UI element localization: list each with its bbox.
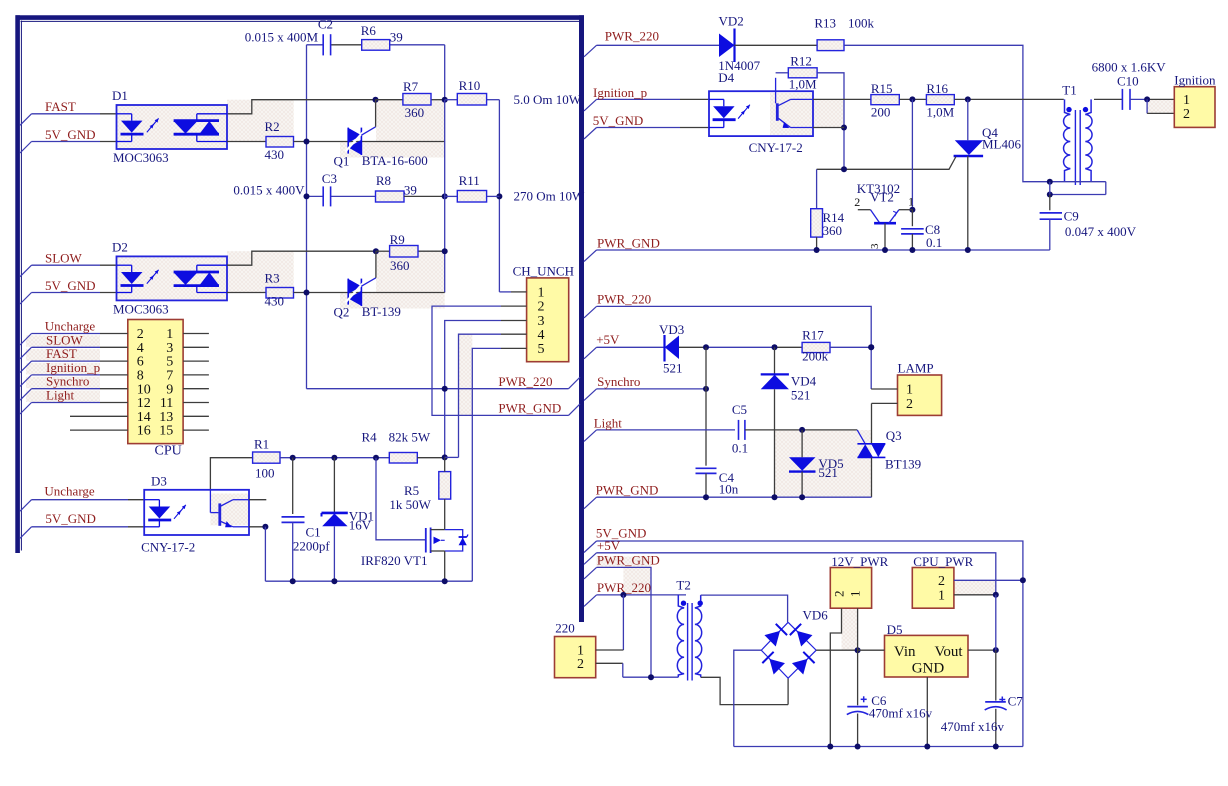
- wire R1 row: [280, 457, 389, 459]
- nodes on lamp PWR_GND rail: [703, 494, 709, 500]
- wire R10 to CH_UNCH pin1 vertical: [498, 100, 500, 292]
- svg-text:521: 521: [818, 465, 838, 480]
- node R7 left junction: [373, 97, 379, 103]
- svg-text:360: 360: [823, 223, 843, 238]
- svg-text:2: 2: [538, 300, 545, 315]
- svg-text:0.015 x 400V: 0.015 x 400V: [233, 183, 305, 198]
- wire R15/R16 junction down to VT2: [911, 99, 913, 209]
- net PWR_220 (psu): [584, 595, 597, 607]
- optocoupler D2 triac: [174, 271, 219, 274]
- diode VD3: [663, 335, 665, 362]
- connector CPU box: [128, 320, 183, 444]
- resistor R4: [389, 453, 417, 464]
- net 5V_GND (D4): [584, 128, 597, 140]
- net PWR_GND (left sheet): [569, 404, 581, 416]
- svg-text:220: 220: [555, 621, 575, 636]
- shaded region Q2 area: [376, 251, 445, 292]
- optocoupler D4 LED: [709, 98, 724, 100]
- wire bottom rail (left sheet): [265, 580, 472, 582]
- svg-text:FAST: FAST: [45, 99, 76, 114]
- net Uncharge (CPU pin 2): [20, 334, 32, 346]
- shaded region PWR_GND bottom-left band: [597, 557, 652, 568]
- node R17/PWR_220 junction: [868, 344, 874, 350]
- svg-text:SLOW: SLOW: [46, 332, 84, 347]
- svg-text:1: 1: [908, 195, 914, 209]
- wire middle vertical x=444.7: [444, 100, 446, 293]
- svg-text:4: 4: [137, 341, 144, 356]
- svg-text:GND: GND: [912, 661, 945, 677]
- wire D2 to R9 jog: [227, 251, 376, 265]
- node Ignition pin1 junction: [1144, 96, 1150, 102]
- net PWR_GND (lamp): [584, 497, 597, 509]
- wire CH_UNCH pin4 down: [501, 333, 527, 335]
- svg-text:PWR_GND: PWR_GND: [596, 483, 659, 498]
- svg-text:+5V: +5V: [596, 332, 620, 347]
- shaded region D2 output area: [227, 251, 294, 292]
- wire R12 left to base: [776, 72, 789, 74]
- svg-text:Vin: Vin: [894, 644, 916, 660]
- resistor R8: [376, 191, 405, 202]
- svg-text:1: 1: [538, 286, 545, 301]
- wire D5 Vin stub: [858, 649, 885, 651]
- node R4 right junction: [442, 454, 448, 460]
- capacitor C10: [1121, 89, 1123, 110]
- body diode VT1: [459, 538, 467, 546]
- svg-text:200k: 200k: [802, 349, 829, 364]
- wire R4 right corner up: [445, 456, 459, 458]
- triac Q3 BT139: [871, 403, 873, 443]
- wire R2 to Q1 MT1 row: [294, 141, 445, 143]
- svg-text:PWR_GND: PWR_GND: [597, 236, 660, 251]
- wire gate to R14: [816, 169, 818, 208]
- resistor R7: [403, 94, 431, 106]
- net PWR_220 (right top): [584, 45, 597, 57]
- net Ignition_p: [584, 99, 597, 111]
- wire CPU_PWR pin2 stub: [954, 579, 1023, 581]
- wire T2 secondary bottom to bridge: [701, 677, 788, 704]
- optocoupler D3 LED: [144, 499, 159, 501]
- svg-text:5: 5: [166, 355, 173, 370]
- wire CPU pin 3 stub right: [183, 346, 209, 348]
- net +5V (psu): [584, 553, 597, 565]
- svg-text:Ignition_p: Ignition_p: [593, 85, 647, 100]
- node C3 bus junction: [304, 193, 310, 199]
- svg-text:BT139: BT139: [885, 457, 921, 472]
- svg-text:2: 2: [938, 574, 945, 589]
- svg-text:C7: C7: [1008, 694, 1024, 709]
- svg-text:SLOW: SLOW: [45, 251, 83, 266]
- capacitor C5: [738, 420, 740, 440]
- net FAST (CPU pin 6): [20, 361, 32, 373]
- node R8/R11 junction: [442, 193, 448, 199]
- svg-text:Synchro: Synchro: [46, 374, 89, 389]
- optocoupler D4 transistor: [776, 103, 779, 121]
- connector LAMP box: [898, 375, 942, 415]
- svg-text:R17: R17: [802, 328, 824, 343]
- optocoupler D1 triac: [174, 119, 219, 122]
- wire 220 pin2 stub: [596, 662, 623, 664]
- wire 220 pin1 vertical: [622, 595, 624, 650]
- connector 220 box: [555, 637, 596, 678]
- svg-text:4: 4: [538, 328, 545, 343]
- wire T2 primary bottom rail: [623, 676, 679, 678]
- wire bottom ground rail (psu): [734, 746, 1023, 748]
- svg-text:1: 1: [906, 383, 913, 398]
- svg-text:521: 521: [663, 361, 683, 376]
- svg-text:PWR_GND: PWR_GND: [498, 401, 561, 416]
- svg-text:R12: R12: [790, 54, 812, 69]
- resistor R10: [457, 94, 486, 106]
- shaded region Ignition stubs: [1147, 99, 1174, 113]
- wire D2 bottom to R3: [227, 292, 266, 294]
- svg-text:5: 5: [538, 342, 545, 357]
- capacitor C2: [322, 34, 324, 55]
- resistor R11: [457, 191, 486, 203]
- capacitor C4: [696, 467, 717, 469]
- wire +5V vertical to Vout: [995, 595, 997, 650]
- svg-text:Light: Light: [46, 388, 75, 403]
- net SLOW: [20, 265, 32, 277]
- svg-text:LAMP: LAMP: [898, 361, 934, 376]
- svg-text:C9: C9: [1064, 209, 1079, 224]
- connector CH_UNCH box: [527, 278, 569, 362]
- svg-text:Vout: Vout: [935, 644, 964, 660]
- transistor VT2 KT3102: [858, 209, 871, 211]
- wire T2 secondary top to bridge: [701, 595, 788, 622]
- net Light (CPU pin 12): [20, 403, 32, 415]
- svg-text:470mf x16v: 470mf x16v: [941, 719, 1005, 734]
- shaded region CPU_PWR stub strip: [954, 580, 996, 595]
- optocoupler D1 arrows: [147, 124, 154, 132]
- wire R4 right: [417, 457, 444, 459]
- svg-text:82k 5W: 82k 5W: [389, 430, 431, 445]
- svg-text:PWR_GND: PWR_GND: [597, 553, 660, 568]
- wire D1 bottom to R2: [227, 141, 266, 143]
- wire T1 bottom step: [1050, 181, 1106, 183]
- optocoupler D4 box: [709, 91, 813, 136]
- wire 220 pin2 down to rail: [622, 663, 624, 677]
- resistor R5: [439, 472, 451, 500]
- node PWR_220/pin3 junction: [442, 386, 448, 392]
- net 5V_GND (D1): [20, 142, 32, 154]
- triac Q2 BT-139: [347, 279, 349, 305]
- wire C3 row: [307, 195, 324, 197]
- net SLOW (CPU pin 4): [20, 347, 32, 359]
- node CPU_PWR pin1 junction: [993, 592, 999, 598]
- svg-text:R5: R5: [404, 483, 419, 498]
- node Q4 anode junction: [965, 96, 971, 102]
- phase dot T1 secondary: [1083, 107, 1088, 112]
- capacitor C3: [322, 186, 324, 206]
- node VT1 gate junction: [373, 455, 379, 461]
- wire C10 to Ignition: [1130, 98, 1147, 100]
- svg-text:VD3: VD3: [659, 322, 684, 337]
- optocoupler D4 arrows: [738, 111, 745, 119]
- node 220 pin1 junction: [620, 592, 626, 598]
- svg-text:IRF820 VT1: IRF820 VT1: [361, 553, 428, 568]
- svg-text:D5: D5: [887, 622, 903, 637]
- wire R5 top: [444, 457, 446, 471]
- svg-text:FAST: FAST: [46, 346, 77, 361]
- svg-text:14: 14: [137, 410, 151, 425]
- shaded region 12V_PWR pin strip: [842, 608, 858, 650]
- node PWR_GND/T2 junction: [648, 674, 654, 680]
- diode VD4: [774, 347, 776, 374]
- wire C5 to Q3 gate: [745, 429, 857, 431]
- svg-text:12: 12: [137, 396, 151, 411]
- svg-text:MOC3063: MOC3063: [113, 302, 169, 317]
- wire CPU pin 15 stub right: [183, 429, 209, 431]
- shaded region D1 output area: [227, 100, 294, 142]
- wire R17 right: [830, 346, 871, 348]
- phase dot T2 primary: [681, 601, 686, 606]
- capacitor C6 polarized: [857, 650, 859, 705]
- wire VD2 to R13: [735, 44, 818, 46]
- wire CPU_PWR pin1 stub: [954, 594, 996, 596]
- wire CPU pin 5 stub right: [183, 360, 209, 362]
- wire CH_UNCH pin1: [499, 291, 511, 293]
- svg-text:C5: C5: [732, 402, 747, 417]
- net Synchro: [584, 389, 597, 401]
- svg-text:6800 x 1.6KV: 6800 x 1.6KV: [1092, 60, 1167, 75]
- wire C2/R6 top row: [307, 44, 324, 46]
- nodes on psu ground rail: [827, 744, 833, 750]
- svg-text:C2: C2: [318, 17, 333, 32]
- svg-text:R16: R16: [926, 81, 948, 96]
- nodes on PWR_GND rail: [814, 247, 820, 253]
- svg-text:100k: 100k: [848, 16, 875, 31]
- resistor R6: [362, 40, 390, 51]
- svg-text:T1: T1: [1062, 83, 1076, 98]
- wire CPU pin 16 stub left: [70, 429, 128, 431]
- wire CH_UNCH pin5 down: [501, 347, 527, 349]
- node Vout junction: [993, 647, 999, 653]
- thyristor Q4 ML406: [967, 99, 969, 140]
- wire R3 to Q2 MT1 row: [294, 292, 445, 294]
- bridge diode VD6 top-left: [764, 631, 780, 647]
- svg-text:5V_GND: 5V_GND: [45, 511, 96, 526]
- optocoupler D1 box: [117, 105, 228, 149]
- wire R13 to T1 bottom: [844, 45, 1050, 181]
- wire D4 emitter row: [813, 127, 844, 129]
- svg-text:521: 521: [791, 388, 811, 403]
- resistor R13: [817, 40, 844, 51]
- node R7/R10 junction: [442, 97, 448, 103]
- wire Ignition pin2: [1146, 99, 1148, 113]
- svg-text:2: 2: [1183, 107, 1190, 122]
- node VD5 branch junction: [799, 427, 805, 433]
- wire Q4 gate row: [817, 157, 956, 170]
- svg-text:430: 430: [265, 147, 285, 162]
- node VD4 branch junction: [772, 344, 778, 350]
- node gate/R12 junction: [841, 166, 847, 172]
- wire CPU pin 9 stub right: [183, 388, 209, 390]
- wire bridge left corner to rail: [734, 650, 762, 746]
- sheet border thick frame: [16, 15, 585, 20]
- svg-text:R13: R13: [814, 16, 836, 31]
- node C4 branch junction: [703, 344, 709, 350]
- wire T1 secondary top to C10: [1094, 98, 1122, 100]
- svg-text:CNY-17-2: CNY-17-2: [141, 540, 195, 555]
- svg-text:12V_PWR: 12V_PWR: [831, 554, 888, 569]
- regulator D5 box: [885, 635, 969, 677]
- wire CH_UNCH pin2 to PWR_GND: [501, 305, 527, 307]
- svg-text:5V_GND: 5V_GND: [593, 113, 644, 128]
- svg-text:T2: T2: [676, 578, 690, 593]
- node R11 right junction: [496, 193, 502, 199]
- optocoupler D3 arrows: [174, 511, 181, 519]
- svg-text:2: 2: [854, 195, 860, 209]
- wire R1 left to D3 base: [210, 458, 252, 490]
- svg-text:Light: Light: [594, 416, 623, 431]
- wire R10 row: [445, 99, 458, 101]
- svg-text:0.1: 0.1: [926, 235, 942, 250]
- svg-text:Synchro: Synchro: [597, 374, 640, 389]
- wire D5 GND down: [926, 677, 928, 747]
- net Uncharge (D3): [20, 500, 32, 512]
- wire R11 row: [445, 195, 458, 197]
- net Synchro (CPU pin 10): [20, 389, 32, 401]
- node R9 left junction: [373, 248, 379, 254]
- node R2/bus junction: [304, 139, 310, 145]
- svg-text:VT2: VT2: [870, 190, 894, 205]
- wire 12V_PWR pin2 down to rail: [830, 608, 841, 746]
- svg-text:CPU: CPU: [155, 444, 182, 459]
- svg-text:VD4: VD4: [791, 374, 817, 389]
- svg-text:R6: R6: [361, 23, 377, 38]
- svg-text:16: 16: [137, 424, 151, 439]
- svg-text:BT-139: BT-139: [362, 304, 401, 319]
- svg-text:ML406: ML406: [982, 137, 1022, 152]
- connector CPU_PWR box: [912, 568, 954, 609]
- svg-text:D1: D1: [112, 88, 128, 103]
- svg-text:3: 3: [166, 341, 173, 356]
- shaded region CH_UNCH pin4/5 strip: [459, 334, 473, 415]
- wire D4 collector to R15: [813, 98, 871, 100]
- optocoupler D3 transistor: [218, 503, 221, 525]
- svg-text:VD6: VD6: [803, 608, 829, 623]
- resistor R15: [871, 95, 899, 105]
- svg-text:1: 1: [848, 591, 863, 598]
- svg-text:15: 15: [159, 424, 173, 439]
- diode VD5: [801, 430, 803, 457]
- capacitor C1: [292, 458, 294, 514]
- svg-text:1: 1: [166, 327, 173, 342]
- wire CPU pin 1 stub right: [183, 333, 209, 335]
- bridge rectifier VD6: [761, 622, 816, 678]
- net PWR_GND (psu): [584, 567, 597, 579]
- svg-text:2: 2: [577, 657, 584, 672]
- wire bridge bottom lead: [787, 678, 789, 704]
- wire R7 row: [376, 99, 403, 101]
- wire D5 Vout stub: [968, 649, 996, 651]
- svg-text:PWR_220: PWR_220: [597, 292, 651, 307]
- svg-text:1k 50W: 1k 50W: [389, 497, 431, 512]
- svg-text:R4: R4: [362, 430, 378, 445]
- svg-text:C1: C1: [306, 525, 321, 540]
- net Light: [584, 430, 597, 442]
- shaded region CPU net labels: [26, 335, 100, 347]
- svg-text:Ignition: Ignition: [1174, 73, 1216, 88]
- svg-text:CNY-17-2: CNY-17-2: [749, 140, 803, 155]
- wire R15-R16: [899, 98, 926, 100]
- node Synchro junction: [703, 386, 709, 392]
- svg-text:CPU_PWR: CPU_PWR: [913, 554, 973, 569]
- svg-text:0.015 x 400M: 0.015 x 400M: [245, 29, 319, 44]
- svg-text:CH_UNCH: CH_UNCH: [513, 264, 574, 279]
- triac Q1 BTA-16-600: [347, 128, 349, 154]
- node R15/R16 junction: [909, 96, 915, 102]
- wire CPU pin 13 stub right: [183, 415, 209, 417]
- wire 220 pin1 stub: [596, 649, 624, 651]
- wire D3 collector stub: [249, 499, 266, 501]
- svg-text:100: 100: [255, 466, 275, 481]
- wire VT1 gate: [376, 458, 426, 540]
- svg-text:R15: R15: [871, 81, 893, 96]
- node R17 right junction: [868, 344, 874, 350]
- wire CH_UNCH pin3 to PWR_220: [501, 320, 527, 322]
- svg-text:470mf x16v: 470mf x16v: [869, 706, 933, 721]
- capacitor C8: [911, 210, 913, 227]
- svg-text:BTA-16-600: BTA-16-600: [362, 153, 428, 168]
- MOSFET VT1 IRF820: [425, 528, 427, 553]
- resistor R16: [926, 95, 954, 105]
- optocoupler D2 arrows: [147, 276, 154, 284]
- shaded region Q1 area: [376, 100, 445, 142]
- svg-text:R8: R8: [376, 173, 391, 188]
- connector Ignition box: [1174, 87, 1215, 128]
- capacitor C9: [1049, 195, 1051, 211]
- net PWR_220 (lamp): [584, 306, 597, 318]
- wire CPU pin 7 stub right: [183, 374, 209, 376]
- svg-text:8: 8: [137, 369, 144, 384]
- svg-text:PWR_220: PWR_220: [498, 374, 552, 389]
- wire R14 to PWR_GND: [816, 237, 818, 250]
- svg-text:16V: 16V: [349, 518, 372, 533]
- svg-text:D3: D3: [151, 474, 167, 489]
- svg-text:360: 360: [390, 258, 410, 273]
- node VD1 junction top: [331, 455, 337, 461]
- svg-text:430: 430: [265, 294, 285, 309]
- svg-text:Q2: Q2: [334, 305, 350, 320]
- wire 12V_PWR pin1 down: [857, 608, 859, 650]
- node R3/bus junction: [304, 290, 310, 296]
- node CPU_PWR pin2 junction: [1020, 577, 1026, 583]
- wire VD3 to R17 row: [679, 346, 706, 348]
- svg-text:5V_GND: 5V_GND: [45, 127, 96, 142]
- svg-text:1: 1: [938, 588, 945, 603]
- bridge diode VD6 bottom-right: [792, 659, 808, 675]
- svg-text:+5V: +5V: [597, 538, 621, 553]
- svg-text:0.047 x 400V: 0.047 x 400V: [1065, 224, 1137, 239]
- svg-text:10: 10: [137, 382, 151, 397]
- svg-text:5.0 Om 10W: 5.0 Om 10W: [514, 92, 582, 107]
- net 5V_GND (D3): [20, 527, 32, 539]
- net Ignition_p (CPU pin 8): [20, 375, 32, 387]
- svg-text:11: 11: [160, 396, 173, 411]
- svg-text:D4: D4: [718, 70, 734, 85]
- svg-text:270 Om 10W: 270 Om 10W: [514, 189, 586, 204]
- net 5V_GND (psu): [584, 541, 597, 553]
- capacitor C7 polarized: [995, 650, 997, 701]
- net FAST: [20, 114, 32, 126]
- resistor R1: [253, 452, 280, 463]
- shaded region D4 transistor: [770, 93, 813, 136]
- wire R12 right down: [817, 73, 844, 170]
- phase dot T1 primary: [1066, 107, 1071, 112]
- svg-text:VD2: VD2: [719, 14, 744, 29]
- net +5V (lamp): [584, 347, 597, 359]
